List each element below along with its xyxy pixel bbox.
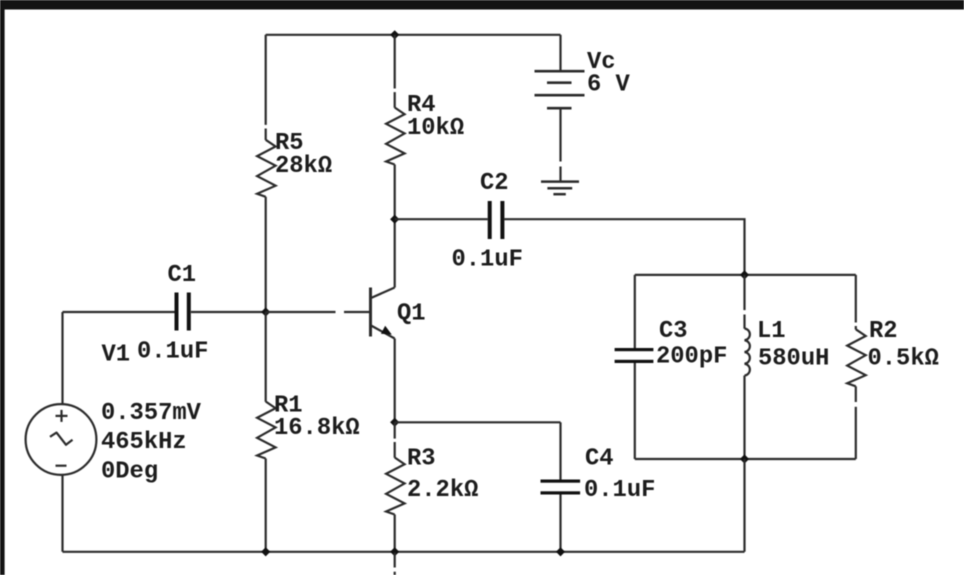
wire top bus [266,34,561,36]
resistor R4 [386,35,464,219]
wire bottom bus [63,551,745,553]
transistor Q1 [371,288,426,339]
capacitor C1 [137,262,208,366]
svg-text:16.8kΩ: 16.8kΩ [274,415,360,442]
resistor R2 [847,275,939,459]
svg-text:2.2kΩ: 2.2kΩ [407,477,478,504]
svg-text:R2: R2 [869,318,898,345]
svg-text:C2: C2 [480,170,509,197]
voltage source V1 [26,312,202,552]
node bottom B (junction dot) [390,547,399,556]
wire V1 to C1 [63,311,175,313]
node bottom A (junction dot) [261,547,270,556]
wire C1 to node A [191,311,266,313]
battery Vc [535,35,631,183]
resistor R1 [257,312,360,552]
wire collector up to C2 node [394,219,396,287]
resistor R5 [257,35,332,312]
wire tank bottom to ground bus [743,459,745,552]
wire tank bottom [635,458,856,460]
wire emitter to C4 [395,421,561,423]
svg-text:V1: V1 [102,342,131,369]
svg-text:0.1uF: 0.1uF [584,477,655,504]
svg-text:6 V: 6 V [587,72,631,99]
node bottom C4 (junction dot) [556,547,565,556]
svg-text:R3: R3 [407,446,436,473]
ground stub below bus [394,553,396,575]
node tank top (junction dot) [740,270,749,279]
wire tank top [635,274,856,276]
svg-text:0Deg: 0Deg [101,459,158,486]
wire C2 to tank top [504,219,744,275]
svg-text:Q1: Q1 [397,301,426,328]
node top bus / R4 (junction dot) [390,30,399,39]
ground under Vc [541,182,579,195]
svg-text:L1: L1 [757,318,786,345]
node A base junction (dot) [261,307,270,316]
capacitor C2 [452,170,523,274]
svg-text:465kHz: 465kHz [101,429,187,456]
svg-text:200pF: 200pF [656,344,727,371]
svg-text:C1: C1 [168,262,197,289]
node emitter (junction dot) [390,418,399,427]
capacitor C3 [615,275,728,459]
capacitor C4 [541,422,656,552]
svg-text:580uH: 580uH [758,346,829,373]
svg-text:0.1uF: 0.1uF [137,339,208,366]
node collector/C2 (junction dot) [390,215,399,224]
svg-text:28kΩ: 28kΩ [275,153,332,180]
wire emitter down [394,339,396,423]
resistor R3 [386,422,478,552]
wire node to C2 [395,218,488,220]
svg-text:10kΩ: 10kΩ [407,115,464,142]
svg-text:C3: C3 [659,318,688,345]
svg-text:0.5kΩ: 0.5kΩ [868,346,939,373]
inductor L1 [745,275,830,459]
wire node A to Q1 base [266,311,371,313]
svg-text:0.1uF: 0.1uF [452,247,523,274]
node tank bottom (junction dot) [740,454,749,463]
svg-text:C4: C4 [585,446,614,473]
svg-text:0.357mV: 0.357mV [101,400,202,427]
